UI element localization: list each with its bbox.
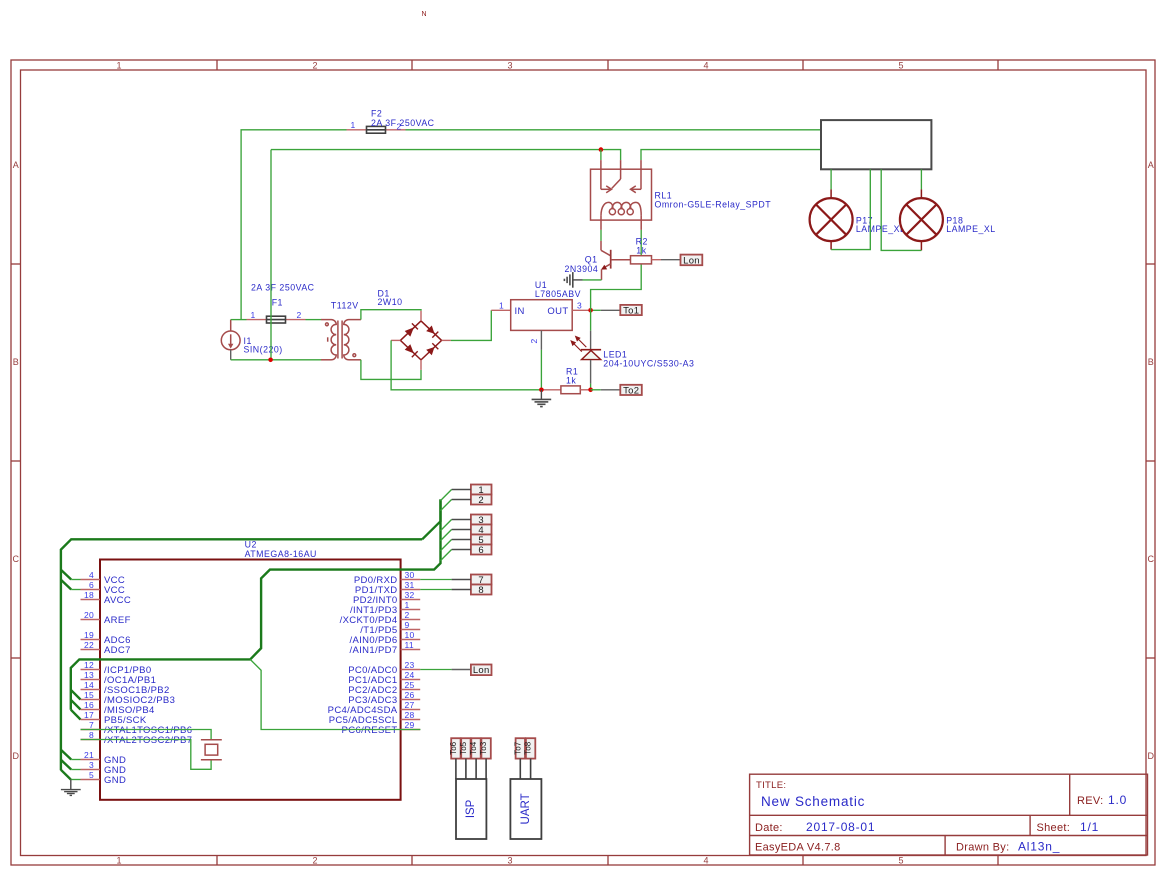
- bus taps pins 15,16,17: [71, 690, 81, 700]
- U2 right pin names: [328, 575, 398, 736]
- wire R1 to To2: [591, 389, 601, 391]
- svg-text:To8: To8: [524, 741, 533, 754]
- wire reset link: [250, 659, 420, 729]
- svg-text:2: 2: [529, 338, 539, 343]
- svg-text:To4: To4: [469, 741, 478, 754]
- svg-text:A: A: [1148, 160, 1154, 170]
- svg-text:8: 8: [89, 730, 94, 740]
- svg-text:F1: F1: [272, 298, 283, 308]
- svg-text:12: 12: [84, 660, 94, 670]
- svg-text:22: 22: [84, 640, 94, 650]
- ground below R1 junction: [532, 390, 552, 407]
- net flag 1: [471, 485, 492, 496]
- relay RL1: [591, 160, 652, 230]
- wire pin30 to flag 7: [420, 579, 451, 581]
- svg-text:To5: To5: [459, 741, 468, 754]
- wire OUT to To1: [589, 309, 601, 311]
- junction box (lamp terminal block): [821, 120, 931, 169]
- net flag 6: [471, 545, 492, 556]
- svg-text:6: 6: [478, 545, 484, 556]
- net flag To1: [620, 305, 642, 317]
- svg-text:Sheet:: Sheet:: [1037, 822, 1071, 834]
- svg-text:27: 27: [405, 700, 415, 710]
- svg-text:SIN(220): SIN(220): [244, 345, 283, 355]
- svg-text:2: 2: [405, 610, 410, 620]
- svg-text:1: 1: [116, 61, 121, 71]
- svg-text:24: 24: [405, 670, 415, 680]
- svg-text:D: D: [1147, 751, 1154, 761]
- svg-text:10: 10: [405, 630, 415, 640]
- wire neutral relay row: [271, 150, 621, 161]
- junction dot R1 right: [588, 388, 593, 393]
- svg-text:14: 14: [84, 680, 94, 690]
- svg-text:B: B: [1148, 357, 1154, 367]
- svg-text:8: 8: [478, 585, 484, 596]
- voltage regulator U1 L7805ABV: [491, 300, 588, 350]
- wire pin7 to crystal: [81, 730, 212, 740]
- svg-text:1: 1: [250, 310, 255, 320]
- svg-text:1.0: 1.0: [1108, 793, 1127, 807]
- svg-text:4: 4: [703, 856, 708, 866]
- current source I1: [221, 320, 240, 360]
- svg-text:L7805ABV: L7805ABV: [535, 289, 581, 299]
- wire neutral vertical through F1: [270, 150, 272, 360]
- svg-text:2N3904: 2N3904: [565, 264, 599, 274]
- svg-text:To1: To1: [623, 306, 639, 317]
- svg-text:19: 19: [84, 630, 94, 640]
- title block texts: [755, 780, 1103, 854]
- fuse F1: [247, 316, 306, 323]
- net flag To4: [469, 738, 481, 758]
- U2 right pin stubs: [401, 580, 421, 730]
- svg-text:ADC7: ADC7: [104, 645, 131, 656]
- svg-text:11: 11: [405, 640, 414, 650]
- svg-text:TITLE:: TITLE:: [756, 780, 786, 791]
- net flag To2: [620, 385, 642, 397]
- net flag To7: [513, 738, 525, 758]
- svg-text:204-10UYC/S530-A3: 204-10UYC/S530-A3: [603, 358, 694, 368]
- net flag 4: [471, 525, 492, 536]
- svg-text:C: C: [12, 554, 19, 564]
- svg-text:D: D: [12, 751, 19, 761]
- wire secondary top to bridge: [361, 310, 421, 320]
- svg-text:Lon: Lon: [683, 256, 700, 267]
- junction dot OUT: [588, 308, 593, 313]
- net flag 5: [471, 535, 492, 546]
- svg-text:23: 23: [405, 660, 415, 670]
- svg-text:Al13n_: Al13n_: [1018, 840, 1060, 854]
- wire coil right down to OUT node: [591, 230, 642, 310]
- svg-text:1/1: 1/1: [1080, 820, 1099, 834]
- svg-text:2: 2: [296, 310, 301, 320]
- svg-text:1: 1: [499, 300, 504, 310]
- svg-text:T112V: T112V: [331, 300, 359, 310]
- svg-text:30: 30: [405, 570, 415, 580]
- net flag 7: [471, 575, 492, 586]
- bus taps GND pins 21,3,5: [61, 750, 71, 760]
- lamp P17: [810, 169, 853, 249]
- MCU U2 ATMEGA8-16AU box: [100, 560, 401, 800]
- wire F2 live row from x=241 to F2: [241, 130, 346, 320]
- fuse F2: [347, 126, 406, 133]
- net flag To6: [449, 738, 461, 758]
- wire P18 bottom loop: [881, 169, 921, 250]
- wire F2 output to junction box: [406, 129, 822, 131]
- svg-text:Drawn By:: Drawn By:: [956, 842, 1009, 854]
- bus right riser to connectors: [422, 499, 440, 539]
- svg-text:20: 20: [84, 610, 94, 620]
- svg-text:New Schematic: New Schematic: [761, 794, 865, 809]
- net flag To5: [459, 738, 471, 758]
- U2 left pin names: [104, 575, 192, 786]
- net flag 3: [471, 515, 492, 526]
- svg-text:2W10: 2W10: [378, 297, 403, 307]
- net flag To8: [524, 738, 536, 758]
- svg-text:1k: 1k: [636, 245, 646, 255]
- svg-text:AREF: AREF: [104, 615, 131, 626]
- svg-text:9: 9: [405, 620, 410, 630]
- svg-text:IN: IN: [515, 306, 525, 317]
- svg-text:31: 31: [405, 580, 415, 590]
- svg-text:/AIN1/PD7: /AIN1/PD7: [349, 645, 397, 656]
- wire R2 to Lon: [661, 259, 681, 261]
- svg-text:LAMPE_XL: LAMPE_XL: [946, 224, 995, 234]
- svg-text:28: 28: [405, 710, 415, 720]
- bridge rectifier D1: [391, 311, 451, 370]
- svg-text:U2: U2: [245, 540, 257, 550]
- svg-text:PC6/RESET: PC6/RESET: [342, 725, 398, 736]
- frame row labels: [12, 160, 1154, 761]
- UART header box: [510, 779, 541, 839]
- svg-text:2: 2: [478, 495, 484, 506]
- net flag Lon (MCU side): [471, 665, 492, 677]
- wire F1 to transformer: [306, 319, 322, 321]
- svg-text:3: 3: [507, 856, 512, 866]
- svg-text:2A 3F 250VAC: 2A 3F 250VAC: [251, 283, 315, 293]
- wire neutral bottom row: [231, 359, 321, 361]
- svg-text:3: 3: [577, 300, 582, 310]
- resistor R1: [543, 386, 589, 394]
- svg-text:F2: F2: [371, 109, 382, 119]
- svg-text:6: 6: [89, 580, 94, 590]
- svg-text:2A 3F 250VAC: 2A 3F 250VAC: [371, 118, 435, 128]
- svg-text:18: 18: [84, 590, 94, 600]
- svg-text:/XTAL2TOSC2/PB7: /XTAL2TOSC2/PB7: [104, 735, 192, 746]
- svg-text:To3: To3: [479, 741, 488, 754]
- svg-text:25: 25: [405, 680, 415, 690]
- svg-text:AVCC: AVCC: [104, 595, 131, 606]
- net flag Lon (relay drive): [681, 255, 703, 267]
- wire Q1 emitter to ground: [583, 279, 602, 281]
- ground at U2: [61, 780, 81, 796]
- net flag To3: [479, 738, 491, 758]
- LED1: [571, 310, 601, 390]
- svg-text:13: 13: [84, 670, 94, 680]
- wire coil left to Q1 collector: [600, 230, 602, 241]
- svg-text:1: 1: [350, 120, 355, 130]
- wire pin31 to flag 8: [420, 589, 451, 591]
- wire NC pin drop: [600, 150, 602, 161]
- svg-text:OUT: OUT: [547, 306, 568, 317]
- resistor R2: [631, 256, 662, 264]
- svg-text:Lon: Lon: [473, 665, 490, 676]
- svg-text:1: 1: [405, 600, 410, 610]
- wire I1 to F1: [231, 319, 247, 321]
- junction dot relay NC/common: [599, 147, 604, 152]
- svg-text:1k: 1k: [566, 375, 576, 385]
- svg-text:16: 16: [84, 700, 94, 710]
- svg-text:A: A: [13, 160, 19, 170]
- ground at Q1 emitter (sideways): [564, 272, 582, 288]
- wire secondary bottom to bridge: [361, 360, 421, 380]
- crystal X1: [201, 740, 222, 760]
- svg-text:7: 7: [89, 720, 94, 730]
- svg-text:ATMEGA8-16AU: ATMEGA8-16AU: [245, 549, 317, 559]
- transformer T1 T112V: [321, 320, 361, 360]
- net flag 8: [471, 585, 492, 596]
- svg-text:15: 15: [84, 690, 94, 700]
- svg-text:4: 4: [703, 61, 708, 71]
- U2 left pin stubs: [81, 580, 101, 780]
- svg-text:N: N: [421, 11, 426, 18]
- frame column labels top: [116, 61, 903, 866]
- svg-text:21: 21: [84, 750, 94, 760]
- U2 left pin numbers: [84, 570, 94, 780]
- svg-text:32: 32: [405, 590, 415, 600]
- junction dot R1 left: [539, 388, 544, 393]
- svg-text:C: C: [1147, 554, 1154, 564]
- U2 right pin numbers: [405, 570, 415, 730]
- svg-text:UART: UART: [520, 793, 532, 824]
- svg-text:4: 4: [89, 570, 94, 580]
- title block: [750, 774, 1148, 855]
- ISP header box: [456, 779, 486, 839]
- diagonal taps to flags 1-6: [441, 490, 452, 561]
- svg-text:17: 17: [84, 710, 94, 720]
- svg-text:5: 5: [898, 856, 903, 866]
- transistor Q1 2N3904: [601, 241, 631, 280]
- svg-text:5: 5: [898, 61, 903, 71]
- svg-text:29: 29: [405, 720, 415, 730]
- wire U1 pin2 down to gnd row: [540, 350, 542, 390]
- svg-text:2: 2: [312, 61, 317, 71]
- svg-text:B: B: [13, 357, 19, 367]
- wire bridge- to ground row: [391, 340, 541, 389]
- svg-text:ISP: ISP: [465, 799, 477, 818]
- wire relay NO to junction box: [641, 150, 821, 161]
- svg-text:3: 3: [507, 61, 512, 71]
- svg-text:Omron-G5LE-Relay_SPDT: Omron-G5LE-Relay_SPDT: [655, 200, 772, 210]
- svg-text:5: 5: [89, 770, 94, 780]
- wire pin23 to Lon: [420, 669, 451, 671]
- svg-text:To7: To7: [513, 741, 522, 754]
- svg-text:1: 1: [116, 856, 121, 866]
- net flag 2: [471, 495, 492, 506]
- svg-text:EasyEDA V4.7.8: EasyEDA V4.7.8: [755, 842, 841, 854]
- svg-text:To6: To6: [449, 741, 458, 754]
- svg-text:REV:: REV:: [1077, 795, 1103, 807]
- wire P17 bottom loop: [831, 169, 870, 249]
- svg-text:2017-08-01: 2017-08-01: [806, 820, 875, 834]
- svg-text:To2: To2: [623, 385, 639, 396]
- svg-text:Date:: Date:: [755, 822, 783, 834]
- wire bridge+ to U1 pin1: [451, 310, 491, 340]
- svg-text:GND: GND: [104, 775, 126, 786]
- svg-text:3: 3: [89, 760, 94, 770]
- svg-text:2: 2: [312, 856, 317, 866]
- bus taps pins 4,6: [61, 570, 71, 580]
- bus VCC/GND left vertical: [61, 539, 422, 770]
- wire pin8 to crystal: [81, 740, 212, 770]
- lamp P18: [900, 169, 943, 250]
- svg-text:26: 26: [405, 690, 415, 700]
- junction dot neutral: [268, 358, 273, 363]
